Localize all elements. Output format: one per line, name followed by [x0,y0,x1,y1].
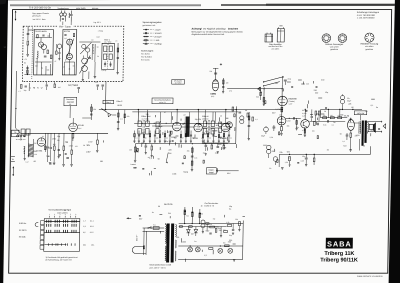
svg-text:330: 330 [219,230,222,232]
loudspeaker [369,123,375,133]
HT distribution components [226,219,241,231]
filter capacitor C64 [301,154,308,166]
svg-text:47k: 47k [323,115,326,117]
svg-text:1n: 1n [223,230,225,232]
svg-text:Filter 2: Filter 2 [116,100,122,103]
IF transformer T1 [138,120,149,135]
svg-text:120: 120 [209,224,212,226]
tone arrow [166,153,168,164]
svg-text:0,5: 0,5 [197,127,200,129]
svg-text:47k: 47k [229,91,232,93]
interstage tube stage [54,44,61,63]
mains switch [148,227,152,229]
filter resistor R60 [279,154,290,169]
svg-text:230V 6W: 230V 6W [357,113,365,115]
svg-text:S1.5: S1.5 [90,232,94,234]
input divider resistor [256,88,265,100]
svg-text:100k: 100k [182,242,186,244]
svg-text:L5: L5 [115,41,117,43]
output transformer secondary winding [367,122,368,134]
svg-text:EM84: EM84 [210,92,216,95]
signal tap marker [257,87,260,90]
svg-text:18k: 18k [46,70,49,72]
IF strip component to ground [149,131,151,143]
tube V8 EL84 output pentode [344,116,354,131]
smoothing resistor [208,224,219,228]
svg-text:47: 47 [54,61,56,63]
mains transformer Tr1 core [166,224,174,263]
svg-text:30: 30 [72,66,74,68]
svg-text:330: 330 [49,164,52,166]
svg-text:1) Drucktaste AM gedrückt geze: 1) Drucktaste AM gedrückt gezeichnet [45,256,77,259]
AF coupling wire [286,117,301,119]
coupling capacitor C50 [284,79,291,85]
switch contact row 1 [45,220,80,223]
svg-text:≈ 5mg: ≈ 5mg [98,31,103,33]
svg-text:4: 4 [65,214,66,216]
mains transformer secondary windings [175,225,177,262]
diode load network [117,110,130,130]
svg-text:von oben: von oben [271,49,279,51]
tone stack components [202,143,228,155]
IF strip component to ground [164,131,168,143]
svg-text:5k6: 5k6 [28,156,31,158]
svg-text:Röhren-Fassungen: Röhren-Fassungen [325,43,344,46]
svg-text:0,1: 0,1 [229,209,232,211]
svg-text:1,5k: 1,5k [226,222,229,224]
svg-text:5p: 5p [41,68,43,70]
tuner stage wiring [35,38,52,75]
band switch label box [152,98,173,104]
svg-text:1k: 1k [201,205,203,207]
resistor R40 anode load [275,107,283,116]
mains transformer Tr1 primary winding [165,223,167,261]
svg-text:1n5: 1n5 [58,87,61,89]
svg-text:4,7k: 4,7k [302,130,305,132]
electrolytic capacitor C60 50+50uF [340,94,352,109]
tube V6 AM mixer [36,138,45,153]
IF coupling components [95,82,104,90]
svg-text:1n: 1n [220,137,222,139]
svg-text:220 V~: 220 V~ [136,234,138,241]
svg-text:0,1: 0,1 [135,137,137,139]
svg-text:68: 68 [34,161,36,163]
tube V5 EM84 tuning indicator [212,80,219,91]
svg-text:22k: 22k [198,119,201,121]
svg-text:1k: 1k [324,111,326,113]
svg-text:5: 5 [70,214,71,216]
tube V9 ECH81 AM mixer [69,118,85,141]
volume control input column [259,87,265,106]
tube V4 EBF89 demodulator [220,123,229,140]
legend row symbol [143,43,163,46]
power supply detail marks [138,205,245,261]
svg-text:Klang: Klang [183,172,188,174]
svg-text:0,05: 0,05 [301,161,304,163]
IF strip component to ground [190,131,195,143]
IF strip interconnect wiring [138,110,226,128]
push-button unit title [48,209,71,215]
svg-text:Si 2 0,315 A: Si 2 0,315 A [141,55,152,58]
tuner oscillator module box [62,30,76,75]
cathode components [272,125,282,135]
svg-text:10 kΩ/V: 10 kΩ/V [154,33,162,35]
svg-text:1 124 2075 00040: 1 124 2075 00040 [357,17,375,19]
svg-text:(6V): (6V) [211,96,215,98]
box1 top components [37,33,50,38]
svg-text:470: 470 [75,146,78,148]
svg-text:S2 2070: S2 2070 [19,230,27,232]
resistor R32 [71,133,73,164]
svg-text:S1.1: S1.1 [90,220,94,222]
wire tuner IF output down [105,82,107,110]
svg-text:5n: 5n [340,134,342,136]
band switch lever [263,76,284,82]
svg-text:56: 56 [158,158,160,160]
filter 3 label [142,115,149,120]
tuner right wiring [79,42,101,79]
resistor R31 [63,133,65,164]
IF strip component to ground [180,131,184,143]
reference mark [220,63,222,65]
reservoir electrolytic capacitors [201,220,210,233]
switch column labels right [83,220,95,246]
scan corner blob top-left [0,0,7,5]
tuner stage value labels [35,58,50,71]
transistor Q1 (tuner RF) [38,42,46,54]
driver emitter components [304,128,307,137]
svg-text:12p: 12p [165,141,168,143]
measurement arrow lower [12,167,14,177]
svg-text:50µF: 50µF [206,231,210,233]
AM/FM switch label box [64,97,77,106]
tuner output column [116,43,119,74]
rectifier diode D1 [186,227,190,237]
resistor R33 [96,133,99,152]
IF filter can F1 [102,43,115,69]
thermistor socket diagram [365,33,374,42]
svg-text:L12: L12 [26,162,29,164]
output stage detail marks [320,99,380,151]
svg-text:10,7 MHz: 10,7 MHz [142,118,149,120]
supply row detail marks [269,149,305,170]
tuner screening partition (dashed) [31,28,34,80]
svg-text:0,2: 0,2 [209,137,211,139]
demodulator diode circle [226,122,232,128]
capacitor C40 [46,133,49,162]
electrolytic capacitor C30 [240,116,244,124]
svg-text:Schaltungs-Unterlagen: Schaltungs-Unterlagen [357,11,380,14]
svg-text:1,2k: 1,2k [285,162,288,164]
svg-text:10,7 MHz: 10,7 MHz [68,85,79,87]
svg-text:Lautst.: Lautst. [131,163,137,166]
SABA logo block [326,238,353,249]
table left bracket [35,222,38,226]
FM tuner label [57,25,73,29]
measurement arrow (vertical dimension) [14,11,16,21]
below-tuner component cluster left [19,83,30,93]
IF transformer T3 [203,120,214,135]
svg-text:10n: 10n [194,158,197,160]
svg-text:0,5: 0,5 [288,158,291,160]
svg-text:UKW 240Ω: UKW 240Ω [76,8,86,10]
svg-text:6: 6 [75,214,76,216]
detector output wire [235,106,238,143]
capacitor C2 [44,55,47,57]
svg-text:0,5-3p: 0,5-3p [101,70,106,72]
svg-text:1,2: 1,2 [204,255,207,257]
push-button column ruler [49,214,77,217]
capacitor C41 [58,154,61,156]
svg-text:1,7: 1,7 [83,220,86,222]
svg-text:22k: 22k [209,71,212,73]
tone control network [141,144,158,159]
second switch pole [263,82,280,87]
svg-text:30k: 30k [287,126,290,128]
AVC rail [134,123,230,124]
svg-text:S1 Drucktastenaggregat: S1 Drucktastenaggregat [48,209,71,212]
resistor R52 [338,115,342,119]
svg-text:5n: 5n [333,122,335,124]
tube V2 EF89 IF amplifier [171,122,181,138]
grid coupling wire [309,120,345,123]
thermistor socket labels [360,43,379,51]
wire to tuning indicator [209,68,218,79]
AM input coupling coils [21,129,30,135]
resistor R30 [53,133,55,162]
tuner RF stage module box [34,30,54,75]
svg-text:gesehen: gesehen [330,49,338,51]
tube socket diagram 2 [338,34,347,43]
push-button bank column [40,221,44,250]
feedback label box [206,168,238,174]
svg-text:330: 330 [229,240,232,242]
svg-text:1,2: 1,2 [174,138,177,140]
svg-text:470p: 470p [287,79,291,81]
svg-text:1: 1 [49,214,50,216]
svg-text:1n: 1n [194,241,196,243]
box2 top components [64,34,74,40]
svg-text:Heißleiter-Fassung: Heißleiter-Fassung [360,43,379,46]
svg-text:S3 5,6k: S3 5,6k [19,236,26,238]
AF signal line to amplifier [227,88,283,89]
output transformer Tr2 primary winding [354,122,361,134]
volume potentiometer [129,144,138,166]
mains input wiring [142,228,164,255]
earth rail bottom [178,221,243,262]
svg-text:47: 47 [182,137,184,139]
svg-text:0,1: 0,1 [371,105,374,107]
svg-text:5n: 5n [229,129,231,131]
IF strip detail marks [142,112,237,148]
IF strip component to ground [223,131,225,143]
svg-text:10p: 10p [57,136,60,138]
scan edge shadow line left part [10,4,201,6]
svg-text:0,2: 0,2 [201,138,204,140]
transistor Q2 AF driver [301,120,310,129]
svg-text:2n: 2n [145,137,147,139]
svg-text:gemessen: gemessen [32,15,41,17]
svg-text:ECH81: ECH81 [36,151,42,153]
svg-text:5,6k: 5,6k [323,125,326,127]
svg-text:22k: 22k [65,142,68,144]
AM section detail marks [23,136,104,166]
voltage legend title [142,22,162,27]
svg-text:47: 47 [164,112,166,114]
svg-text:Ltg. 30 V: Ltg. 30 V [94,21,102,24]
svg-text:1n: 1n [220,116,222,118]
svg-text:10p: 10p [202,133,205,135]
transistor labels [302,109,308,132]
electrolytic capacitor C52 [264,126,269,134]
svg-text:1,2: 1,2 [205,131,208,133]
filter 1 label box [103,100,114,104]
pilot lamp La2 [195,246,200,252]
svg-text:0,1: 0,1 [42,136,44,138]
svg-text:0,1: 0,1 [120,119,122,121]
svg-text:220: 220 [314,90,317,92]
svg-text:50k: 50k [256,97,259,99]
IF strip component to ground [159,131,161,143]
svg-text:B 250 C 75: B 250 C 75 [204,206,213,208]
svg-text:5k6: 5k6 [200,213,203,215]
resistor R51 [330,115,334,119]
external speaker marker [383,124,386,129]
dial lamp resistors [209,243,229,250]
frame terminal marks [11,157,15,162]
svg-text:Netztransformator 1/228: Netztransformator 1/228 [150,264,172,267]
IF output label 10.7MHz [68,85,80,93]
frame antenna secondary coil [23,146,26,160]
svg-text:Achtung!: Achtung! [192,27,203,30]
svg-text:10p: 10p [302,156,305,158]
FM tuner screening box (dashed) [22,26,123,81]
IF strip component to ground [218,131,222,143]
legend row symbol [143,36,162,38]
svg-text:1n: 1n [152,212,154,214]
pilot lamp La1 [188,246,193,252]
secondary supply rail [132,111,238,113]
oscillator coil with core [92,44,95,54]
switch contact row 2 [47,224,77,227]
svg-text:Si 3 1,6 A: Si 3 1,6 A [141,58,150,61]
svg-text:47: 47 [63,67,65,69]
capacitor C13 [88,57,91,59]
tube socket diagram 1 [322,34,331,43]
IF transformer T4 [219,122,222,133]
svg-text:68: 68 [351,107,353,109]
rectifier diode D2 [194,227,198,237]
rectifier extra parts [207,219,234,237]
svg-text:gemessen mit:: gemessen mit: [142,24,155,27]
measurement condition note [32,13,49,21]
rectifier note [204,202,218,208]
svg-text:Sicherungen:: Sicherungen: [141,50,154,52]
IF link label box [172,80,185,85]
svg-text:Triberg 11K: Triberg 11K [324,251,354,257]
svg-text:10k: 10k [192,137,195,139]
supply row component [313,154,315,165]
svg-text:Abgleichvorschrift siehe Servi: Abgleichvorschrift siehe Service-Heft [191,33,224,36]
IF strip component to ground [228,131,232,143]
resistor R1 [47,50,49,54]
cathode value labels [261,136,273,139]
svg-text:C21: C21 [95,82,98,84]
svg-text:30V: 30V [86,145,90,147]
IF strip component to ground [207,131,211,143]
detector diode [101,105,122,117]
svg-text:1k: 1k [269,168,271,170]
push-button switch table frame [44,219,80,252]
below-box row extra parts [45,81,62,90]
svg-text:10p: 10p [348,119,351,121]
svg-text:20 kΩ/V: 20 kΩ/V [154,36,162,38]
tuning trimmer capacitors [80,43,91,55]
svg-text:Triberg 90/11K: Triberg 90/11K [320,258,358,264]
filter 1 label [104,38,111,43]
svg-text:0,1: 0,1 [255,119,257,121]
svg-text:1 MΩ: 1 MΩ [154,40,159,42]
driver output network [309,121,320,132]
switch contact row 3 [45,230,80,233]
legend row symbol [143,32,162,35]
IF strip component to ground [138,131,140,143]
svg-text:22k: 22k [156,137,159,139]
svg-text:0,1: 0,1 [166,137,168,139]
supply rail to output stage [279,146,370,155]
svg-text:1k: 1k [212,130,214,132]
fuse legend title [141,50,154,61]
svg-text:Si2: Si2 [213,219,216,221]
AGC decoupling branch [247,112,250,140]
AM mixer anode network [82,104,96,120]
svg-text:Messungen nur mit abgeschirmte: Messungen nur mit abgeschirmter Leitung … [192,30,243,33]
IF transformer T2 [156,121,161,135]
anode supply wire [281,78,283,127]
AM section grounds [49,163,73,167]
mains plug [132,247,146,254]
rail drop wires output stage [328,109,361,121]
svg-text:10p: 10p [229,206,232,208]
AGC line components [232,107,258,121]
svg-text:prim. 220 V~ 50 Hz: prim. 220 V~ 50 Hz [150,267,166,270]
svg-text:2,5V: 2,5V [86,151,91,153]
oscillator value labels [63,66,74,71]
AM input chain parts [26,133,61,163]
tube V1a (ECC85 triode) [67,39,73,45]
svg-text:56: 56 [363,145,365,147]
svg-text:gesehen: gesehen [365,49,373,51]
svg-text:18: 18 [91,40,93,42]
svg-text:5n: 5n [376,107,378,109]
terminal box on frame [11,130,19,136]
alignment warning note [191,27,242,36]
svg-text:Tonabnehmer: Tonabnehmer [57,7,69,10]
svg-text:50µ: 50µ [229,235,232,237]
svg-text:455 kHz: 455 kHz [202,118,208,120]
AF signal line from detector [135,143,235,144]
svg-text:100k: 100k [172,174,176,176]
legend row symbol [143,39,160,42]
tube socket labels [325,43,344,51]
svg-text:50k: 50k [127,116,130,118]
svg-text:oszillogr.: oszillogr. [154,43,162,45]
svg-text:Si 1 0,8 A: Si 1 0,8 A [141,52,150,55]
wire switch box to AM mixer [69,106,71,118]
svg-text:330: 330 [321,80,324,82]
svg-text:Sk1: Sk1 [83,245,86,247]
svg-text:Rö 29 35: Rö 29 35 [164,204,173,206]
